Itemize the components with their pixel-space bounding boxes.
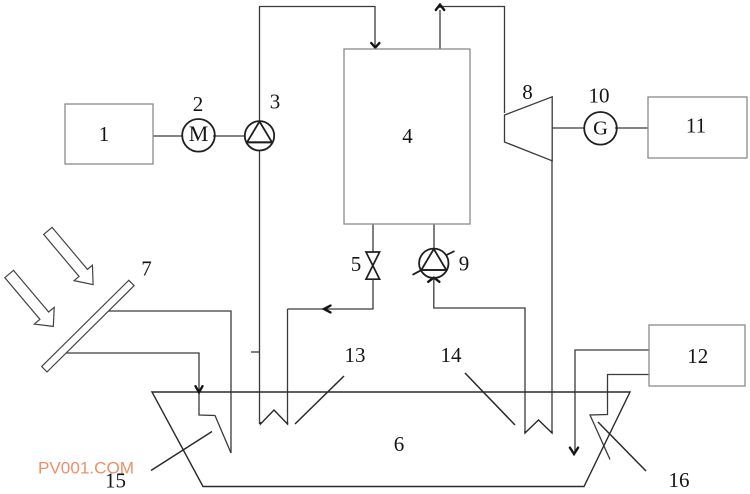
svg-text:10: 10 [589,84,610,108]
svg-text:6: 6 [394,432,405,456]
svg-text:7: 7 [141,257,152,281]
svg-text:2: 2 [193,92,204,116]
svg-text:3: 3 [270,90,281,114]
svg-text:9: 9 [459,252,470,276]
svg-text:16: 16 [669,468,690,492]
svg-text:4: 4 [402,124,413,148]
svg-text:M: M [189,121,209,146]
svg-text:11: 11 [686,114,706,138]
svg-text:14: 14 [441,343,463,367]
svg-text:13: 13 [345,343,366,367]
svg-text:12: 12 [687,344,708,368]
svg-text:1: 1 [99,122,110,146]
svg-text:PV001.COM: PV001.COM [38,459,134,478]
svg-text:G: G [593,118,608,140]
svg-text:8: 8 [522,80,533,104]
svg-text:5: 5 [351,252,362,276]
